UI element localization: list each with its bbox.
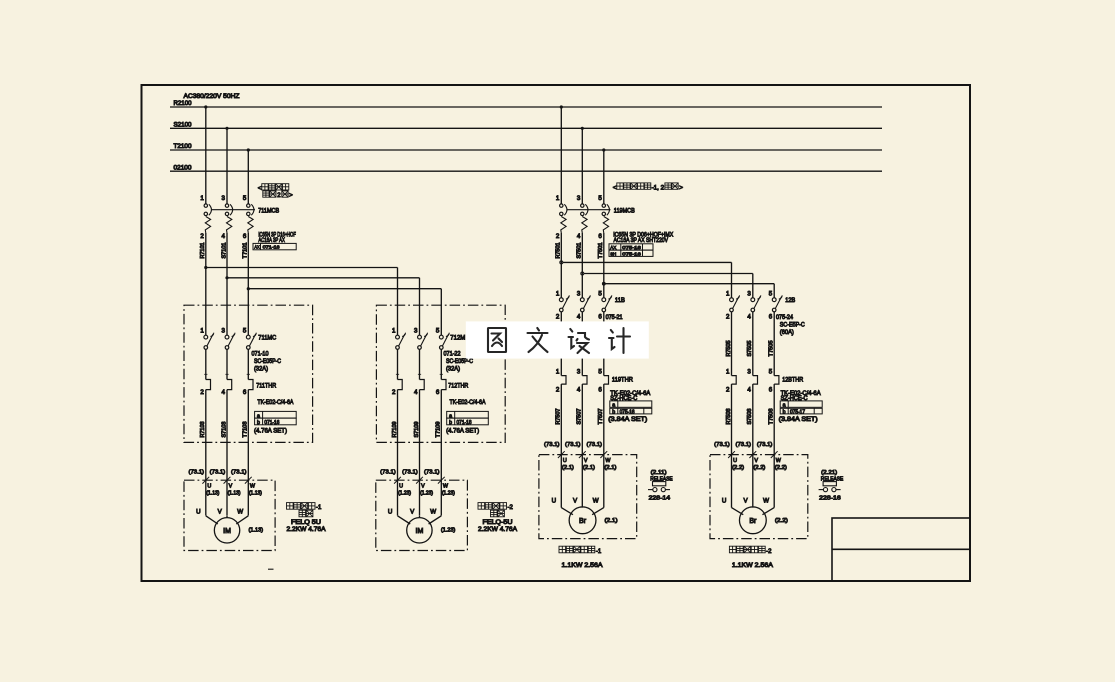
svg-text:071-18: 071-18 [457, 420, 472, 426]
svg-text:(1.13): (1.13) [206, 491, 219, 497]
svg-text:b: b [783, 409, 786, 415]
svg-text:a: a [612, 403, 615, 409]
svg-text:6: 6 [436, 389, 440, 396]
svg-text:(73.1): (73.1) [736, 442, 752, 448]
svg-text:W: W [776, 458, 782, 464]
svg-text:V: V [754, 458, 758, 464]
svg-text:071-10: 071-10 [252, 350, 269, 357]
svg-text:a: a [257, 413, 260, 419]
svg-text:(1.23): (1.23) [398, 491, 411, 497]
svg-text:(73.1): (73.1) [231, 469, 247, 475]
svg-text:T2100: T2100 [174, 143, 193, 150]
svg-text:>: > [679, 184, 683, 191]
svg-text:6: 6 [598, 387, 602, 394]
svg-text:S7103: S7103 [221, 421, 227, 437]
svg-text:S7505: S7505 [747, 340, 753, 356]
svg-text:T7505: T7505 [769, 340, 775, 356]
svg-text:R7508: R7508 [726, 408, 732, 424]
svg-text:1: 1 [556, 195, 560, 202]
svg-text:T7507: T7507 [598, 408, 604, 424]
svg-text:-1: -1 [596, 549, 602, 555]
svg-text:11B: 11B [615, 297, 625, 304]
svg-text:U: U [196, 509, 200, 516]
svg-text:5: 5 [769, 369, 773, 376]
svg-text:(1.13): (1.13) [228, 491, 241, 497]
svg-text:2: 2 [392, 389, 396, 396]
svg-text:V: V [584, 458, 588, 464]
svg-text:W: W [430, 509, 436, 516]
svg-text:712M: 712M [450, 335, 465, 342]
svg-text:AC380/220V 50HZ: AC380/220V 50HZ [184, 93, 240, 100]
svg-text:U: U [563, 458, 567, 464]
svg-text:6: 6 [769, 387, 773, 394]
svg-text:3: 3 [222, 195, 226, 202]
svg-text:2: 2 [200, 233, 204, 240]
svg-text:S7507: S7507 [577, 408, 583, 424]
svg-text:T7103: T7103 [243, 421, 249, 437]
svg-text:(1.13): (1.13) [249, 491, 262, 497]
svg-text:(1.23): (1.23) [420, 491, 433, 497]
svg-text:(2.2): (2.2) [775, 518, 788, 524]
svg-text:SC-E05P-C: SC-E05P-C [446, 358, 473, 365]
svg-text:228-16: 228-16 [819, 495, 841, 501]
svg-text:2: 2 [200, 389, 204, 396]
svg-text:Br: Br [749, 518, 757, 525]
svg-text:(73.1): (73.1) [587, 442, 603, 448]
svg-text:4: 4 [747, 314, 751, 321]
svg-text:W: W [237, 509, 243, 516]
svg-text:071-16: 071-16 [264, 420, 279, 426]
svg-text:T7508: T7508 [769, 408, 775, 424]
svg-text:4: 4 [222, 233, 226, 240]
svg-text:075-16: 075-16 [622, 251, 641, 257]
svg-text:W: W [763, 498, 769, 505]
svg-text:5: 5 [598, 369, 602, 376]
svg-text:711MCB: 711MCB [258, 207, 279, 214]
svg-text:075-21: 075-21 [606, 314, 623, 321]
svg-text:TK-E02-C/4-6A: TK-E02-C/4-6A [450, 399, 487, 406]
svg-text:2: 2 [556, 233, 560, 240]
svg-text:(73.1): (73.1) [189, 469, 205, 475]
svg-text:(2.11): (2.11) [651, 470, 667, 476]
svg-text:4: 4 [222, 389, 226, 396]
svg-text:(2.1): (2.1) [562, 465, 574, 471]
svg-text:(73.1): (73.1) [544, 442, 560, 448]
svg-text:a: a [783, 403, 786, 409]
svg-text:(4.76A SET): (4.76A SET) [446, 428, 479, 435]
svg-text:071-22: 071-22 [444, 350, 461, 357]
svg-text:FELQ 5U: FELQ 5U [291, 519, 321, 526]
svg-text:5: 5 [436, 328, 440, 335]
svg-text:02100: 02100 [174, 164, 193, 171]
svg-text:1: 1 [556, 290, 560, 297]
svg-text:075-24: 075-24 [776, 314, 793, 321]
svg-text:(73.1): (73.1) [565, 442, 581, 448]
svg-text:R7109: R7109 [392, 421, 398, 437]
svg-text:<: < [258, 185, 262, 192]
svg-text:-2: -2 [766, 549, 772, 555]
svg-text:AX: AX [610, 245, 617, 251]
svg-text:R7505: R7505 [726, 340, 732, 356]
svg-text:2: 2 [556, 387, 560, 394]
svg-text:(2.2): (2.2) [775, 465, 787, 471]
svg-text:4: 4 [747, 387, 751, 394]
svg-text:(2.1): (2.1) [604, 465, 616, 471]
svg-text:1.1KW 2.56A: 1.1KW 2.56A [562, 562, 604, 569]
svg-text:U: U [733, 458, 737, 464]
svg-text:6: 6 [769, 314, 773, 321]
svg-text:(73.1): (73.1) [380, 469, 396, 475]
svg-text:(4.76A SET): (4.76A SET) [254, 428, 287, 435]
svg-text:R7507: R7507 [556, 408, 562, 424]
svg-text:6: 6 [598, 233, 602, 240]
svg-text:711MC: 711MC [258, 335, 276, 342]
svg-text:712THR: 712THR [448, 382, 468, 389]
svg-text:3: 3 [747, 369, 751, 376]
svg-text:IM: IM [416, 528, 424, 535]
svg-text:(3.84A SET): (3.84A SET) [779, 416, 818, 423]
svg-text:2: 2 [556, 314, 560, 321]
svg-text:T7109: T7109 [436, 421, 442, 437]
svg-text:U: U [552, 498, 556, 505]
svg-text:(73.1): (73.1) [402, 469, 418, 475]
svg-text:(32A): (32A) [446, 365, 460, 372]
svg-text:3: 3 [577, 195, 581, 202]
svg-text:(60A): (60A) [780, 329, 794, 336]
svg-text:119MCB: 119MCB [614, 207, 635, 214]
svg-text:(2.1): (2.1) [605, 518, 618, 524]
svg-text:711THR: 711THR [256, 382, 276, 389]
svg-text:V: V [421, 484, 425, 490]
svg-text:12B: 12B [785, 297, 795, 304]
svg-text:R7103: R7103 [200, 421, 206, 437]
svg-text:075-16: 075-16 [622, 245, 641, 251]
svg-text:>: > [289, 192, 293, 199]
svg-text:4: 4 [577, 233, 581, 240]
svg-text:1: 1 [200, 328, 204, 335]
svg-text:S2100: S2100 [174, 121, 193, 128]
svg-text:W: W [593, 498, 599, 505]
svg-text:2: 2 [726, 387, 730, 394]
svg-text:12BTHR: 12BTHR [782, 376, 803, 383]
svg-text:(2.2): (2.2) [732, 465, 744, 471]
svg-text:-2: -2 [508, 505, 514, 511]
svg-text:5: 5 [243, 195, 247, 202]
svg-text:071-16: 071-16 [263, 245, 280, 251]
svg-text:3: 3 [577, 290, 581, 297]
svg-text:2: 2 [726, 314, 730, 321]
svg-text:(2.21): (2.21) [821, 470, 837, 476]
svg-text:2.2KW 4.76A: 2.2KW 4.76A [287, 526, 327, 533]
svg-text:S7109: S7109 [414, 421, 420, 437]
svg-text:5: 5 [243, 328, 247, 335]
svg-text:V: V [229, 484, 233, 490]
svg-text:-1: -1 [316, 505, 322, 511]
svg-text:3: 3 [222, 328, 226, 335]
svg-text:SC-E5P-C: SC-E5P-C [780, 322, 805, 329]
svg-text:Br: Br [579, 518, 587, 525]
svg-text:-1, 2: -1, 2 [652, 185, 665, 191]
svg-text:1: 1 [392, 328, 396, 335]
svg-text:075-16: 075-16 [620, 409, 635, 415]
svg-text:1.1KW 2.56A: 1.1KW 2.56A [732, 562, 774, 569]
svg-text:(73.1): (73.1) [210, 469, 226, 475]
svg-text:1: 1 [726, 369, 730, 376]
svg-text:4: 4 [577, 314, 581, 321]
svg-text:4: 4 [577, 387, 581, 394]
svg-text:(1.23): (1.23) [441, 528, 456, 534]
svg-text:5: 5 [769, 290, 773, 297]
svg-text:2.2KW 4.76A: 2.2KW 4.76A [478, 526, 518, 533]
svg-text:6: 6 [598, 314, 602, 321]
svg-text:S7508: S7508 [747, 408, 753, 424]
svg-text:(2.1): (2.1) [583, 465, 595, 471]
svg-text:5: 5 [598, 195, 602, 202]
svg-text:b: b [257, 420, 260, 426]
svg-text:U: U [722, 498, 726, 505]
svg-text:FELQ-5U: FELQ-5U [483, 519, 513, 526]
svg-text:5: 5 [598, 290, 602, 297]
svg-text:IM: IM [223, 528, 231, 535]
svg-text:6: 6 [243, 233, 247, 240]
svg-text:U: U [388, 509, 392, 516]
svg-text:<: < [613, 184, 617, 191]
svg-text:228-14: 228-14 [649, 495, 671, 501]
svg-text:(73.1): (73.1) [714, 442, 730, 448]
svg-text:3: 3 [577, 369, 581, 376]
svg-text:R2100: R2100 [174, 100, 193, 107]
svg-text:075-17: 075-17 [790, 409, 805, 415]
svg-text:(73.1): (73.1) [424, 469, 440, 475]
svg-text:3: 3 [414, 328, 418, 335]
svg-text:a: a [449, 413, 452, 419]
svg-text:6: 6 [243, 389, 247, 396]
svg-text:b: b [612, 409, 615, 415]
svg-text:SC-E05P-C: SC-E05P-C [254, 358, 281, 365]
svg-text:1: 1 [726, 290, 730, 297]
svg-text:(2.2): (2.2) [753, 465, 765, 471]
svg-text:b: b [449, 420, 452, 426]
svg-text:1: 1 [200, 195, 204, 202]
svg-text:U: U [207, 484, 211, 490]
svg-text:3: 3 [747, 290, 751, 297]
svg-text:(1.23): (1.23) [442, 491, 455, 497]
svg-text:AX: AX [254, 245, 260, 251]
svg-text:119THR: 119THR [612, 376, 633, 383]
svg-text:(1.13): (1.13) [249, 528, 264, 534]
svg-text:(32A): (32A) [254, 365, 268, 372]
svg-text:(73.1): (73.1) [757, 442, 773, 448]
svg-text:U: U [399, 484, 403, 490]
svg-text:1: 1 [556, 369, 560, 376]
svg-text:SH: SH [610, 251, 616, 257]
svg-text:(3.84A SET): (3.84A SET) [608, 416, 647, 423]
svg-text:TK-E02-C/4-6A: TK-E02-C/4-6A [257, 399, 294, 406]
svg-text:4: 4 [414, 389, 418, 396]
